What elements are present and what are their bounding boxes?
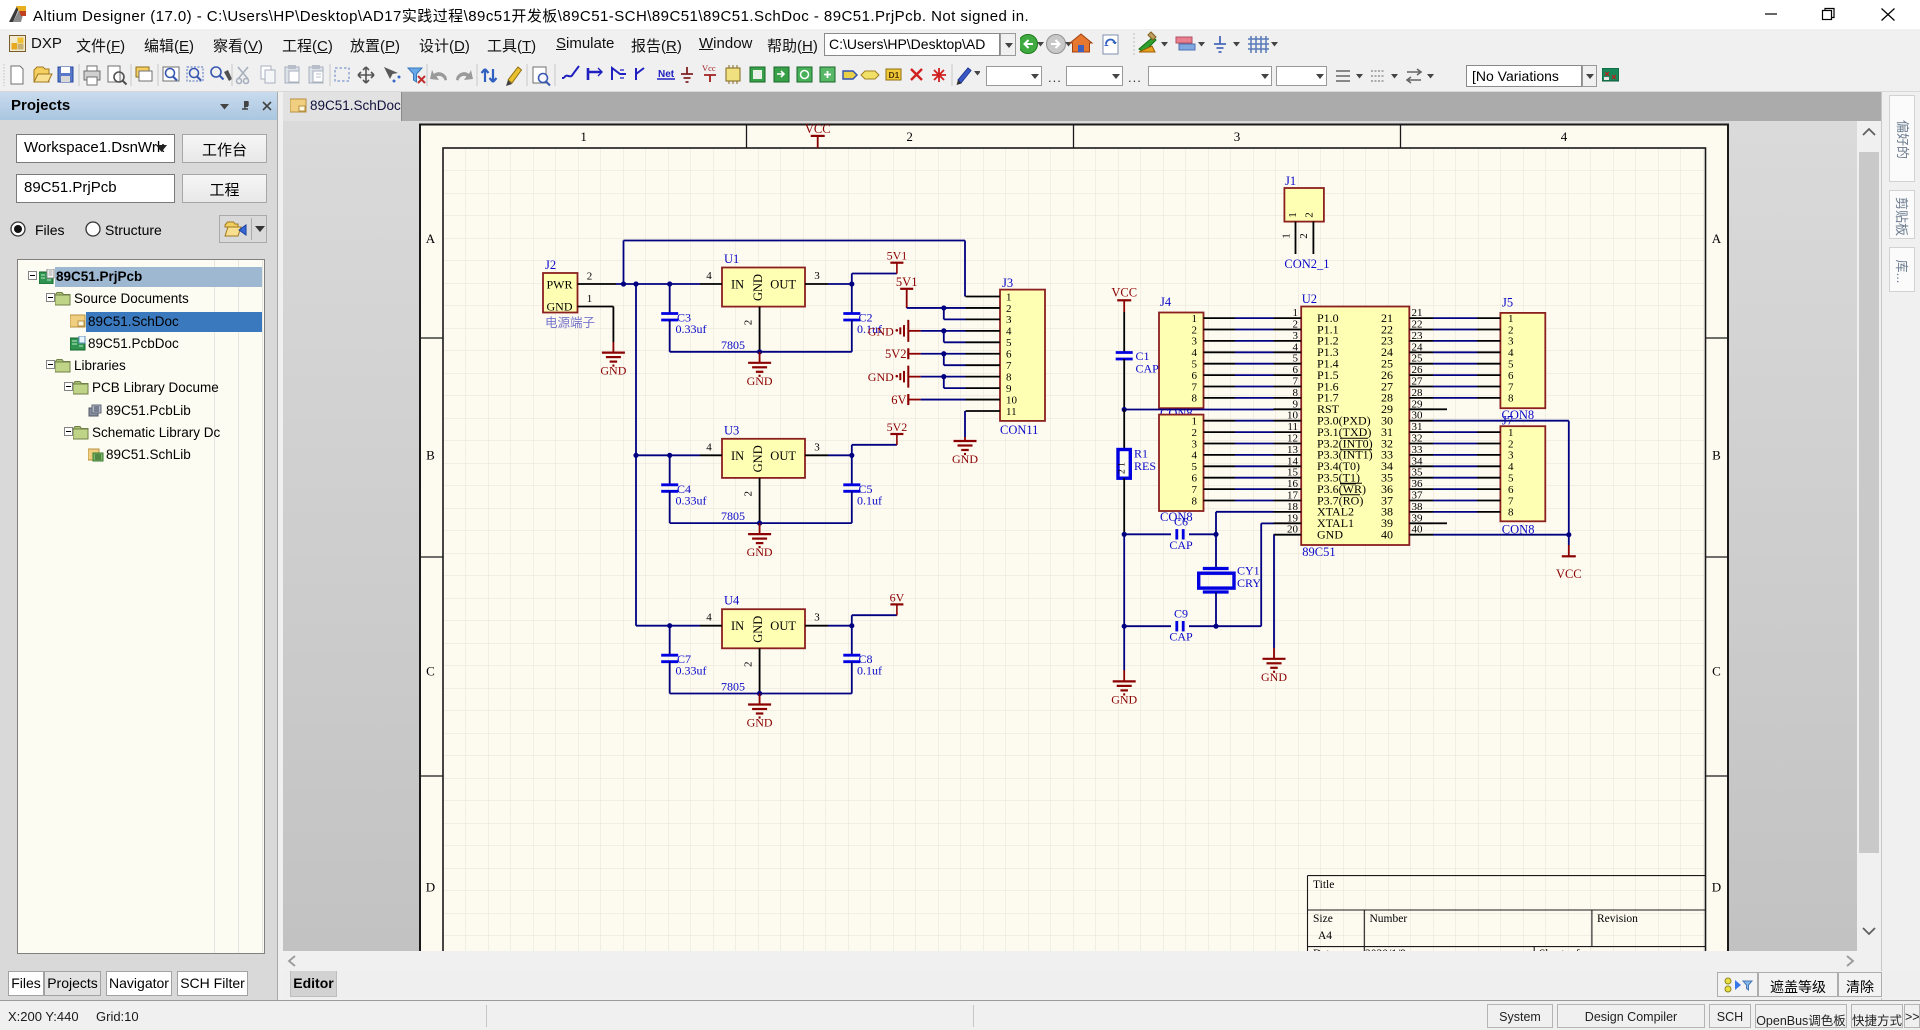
svg-text:6: 6 (1508, 484, 1514, 496)
svg-text:2: 2 (743, 491, 755, 497)
svg-text:U4: U4 (724, 594, 740, 608)
svg-text:GND: GND (751, 274, 765, 301)
svg-text:9: 9 (1006, 383, 1012, 395)
svg-text:1: 1 (1281, 233, 1293, 239)
svg-text:A: A (426, 231, 436, 246)
svg-text:A4: A4 (1318, 930, 1332, 942)
svg-text:C: C (1712, 664, 1721, 679)
svg-text:U3: U3 (724, 423, 739, 437)
svg-text:2: 2 (1006, 303, 1012, 315)
svg-text:89C51: 89C51 (1302, 545, 1335, 559)
svg-text:5: 5 (1508, 359, 1514, 371)
svg-text:IN: IN (731, 449, 744, 463)
svg-text:2: 2 (1192, 427, 1198, 439)
svg-text:11: 11 (1006, 406, 1017, 418)
svg-text:4: 4 (706, 441, 712, 453)
svg-text:B: B (1712, 448, 1721, 463)
svg-text:3: 3 (1508, 450, 1514, 462)
svg-text:VCC: VCC (1111, 286, 1137, 300)
svg-text:2: 2 (587, 271, 593, 283)
svg-text:GND: GND (868, 324, 894, 338)
svg-text:8: 8 (1508, 393, 1514, 405)
svg-text:5V2: 5V2 (887, 420, 908, 434)
svg-text:VCC: VCC (805, 122, 831, 136)
svg-text:GND: GND (747, 716, 773, 730)
svg-text:3: 3 (1234, 129, 1241, 144)
svg-text:U1: U1 (724, 252, 739, 266)
svg-text:7: 7 (1192, 381, 1198, 393)
svg-text:GND: GND (747, 545, 773, 559)
svg-text:CAP: CAP (1136, 362, 1160, 376)
svg-text:J4: J4 (1160, 295, 1172, 309)
svg-text:Vcc: Vcc (702, 63, 716, 73)
svg-text:5V1: 5V1 (887, 249, 908, 263)
svg-text:8: 8 (1508, 507, 1514, 519)
svg-text:GND: GND (747, 374, 773, 388)
svg-text:J5: J5 (1502, 296, 1513, 310)
svg-text:6: 6 (1192, 370, 1198, 382)
svg-text:GND: GND (547, 300, 573, 314)
svg-text:2: 2 (1508, 438, 1514, 450)
svg-text:GND: GND (1317, 528, 1343, 542)
svg-text:4: 4 (1192, 347, 1198, 359)
svg-text:6: 6 (1192, 473, 1198, 485)
svg-text:7: 7 (1508, 495, 1514, 507)
svg-text:4: 4 (706, 612, 712, 624)
svg-text:Date:: Date: (1313, 948, 1338, 951)
svg-text:1: 1 (587, 293, 593, 305)
svg-text:OUT: OUT (770, 449, 796, 463)
svg-text:GND: GND (1261, 670, 1287, 684)
svg-text:4: 4 (1006, 326, 1012, 338)
svg-text:Number: Number (1370, 913, 1408, 925)
svg-text:VCC: VCC (1556, 567, 1582, 581)
svg-text:6: 6 (1006, 349, 1012, 361)
svg-text:0.1uf: 0.1uf (857, 493, 882, 507)
svg-text:J2: J2 (545, 258, 556, 272)
svg-text:A: A (1712, 231, 1722, 246)
svg-text:GND: GND (952, 452, 978, 466)
svg-text:4: 4 (1508, 461, 1514, 473)
svg-text:C9: C9 (1174, 607, 1188, 621)
svg-text:4: 4 (1192, 450, 1198, 462)
svg-text:IN: IN (731, 278, 744, 292)
svg-text:OUT: OUT (770, 619, 796, 633)
svg-text:5V1: 5V1 (896, 275, 918, 289)
svg-text:5: 5 (1006, 337, 1012, 349)
svg-text:0.1uf: 0.1uf (857, 664, 882, 678)
svg-text:7805: 7805 (721, 338, 745, 352)
svg-text:CON2_1: CON2_1 (1284, 257, 1329, 271)
svg-text:1: 1 (1192, 416, 1198, 428)
svg-text:of: of (1570, 948, 1580, 951)
svg-text:3: 3 (814, 270, 820, 282)
svg-text:2: 2 (743, 661, 755, 667)
svg-text:CON11: CON11 (1000, 423, 1038, 437)
svg-text:6V: 6V (890, 590, 905, 604)
svg-text:Sheet: Sheet (1539, 948, 1565, 951)
svg-text:0.33uf: 0.33uf (676, 493, 707, 507)
svg-text:Size: Size (1313, 913, 1333, 925)
svg-text:7805: 7805 (721, 680, 745, 694)
svg-text:B: B (426, 448, 435, 463)
svg-text:5: 5 (1192, 461, 1198, 473)
svg-text:10: 10 (1006, 394, 1018, 406)
svg-text:Revision: Revision (1597, 913, 1638, 925)
svg-text:CAP: CAP (1169, 538, 1193, 552)
svg-text:OUT: OUT (770, 278, 796, 292)
svg-text:D1: D1 (889, 70, 900, 80)
svg-text:4: 4 (1508, 347, 1514, 359)
svg-text:2020/1/9: 2020/1/9 (1365, 948, 1406, 951)
svg-text:8: 8 (1006, 371, 1012, 383)
svg-text:3: 3 (814, 612, 820, 624)
svg-text:2: 2 (1508, 324, 1514, 336)
svg-text:GND: GND (600, 364, 626, 378)
svg-text:1: 1 (1006, 291, 1012, 303)
svg-text:J3: J3 (1002, 276, 1013, 290)
svg-text:7: 7 (1006, 360, 1012, 372)
svg-text:3: 3 (1508, 336, 1514, 348)
svg-text:0.33uf: 0.33uf (676, 664, 707, 678)
svg-text:CRY: CRY (1237, 576, 1261, 590)
svg-text:电源端子: 电源端子 (545, 316, 595, 330)
svg-text:CAP: CAP (1169, 630, 1193, 644)
svg-text:5V2: 5V2 (885, 347, 907, 361)
svg-text:3: 3 (1006, 314, 1012, 326)
svg-text:5: 5 (1192, 359, 1198, 371)
svg-text:7: 7 (1192, 484, 1198, 496)
svg-text:1: 1 (1508, 313, 1514, 325)
svg-text:1: 1 (1192, 313, 1198, 325)
svg-text:J1: J1 (1285, 174, 1296, 188)
svg-text:2: 2 (1192, 324, 1198, 336)
svg-text:8: 8 (1192, 495, 1198, 507)
svg-text:5: 5 (1508, 473, 1514, 485)
svg-text:0.33uf: 0.33uf (676, 322, 707, 336)
svg-text:2: 2 (1298, 233, 1310, 239)
svg-text:D: D (426, 880, 435, 895)
svg-text:1: 1 (1287, 212, 1299, 218)
svg-text:GND: GND (868, 370, 894, 384)
svg-text:2: 2 (906, 129, 913, 144)
svg-text:2: 2 (743, 320, 755, 326)
svg-text:7: 7 (1508, 381, 1514, 393)
svg-text:2 1: 2 1 (1118, 462, 1128, 474)
svg-text:GND: GND (751, 616, 765, 643)
svg-text:IN: IN (731, 619, 744, 633)
svg-text:1: 1 (580, 129, 587, 144)
svg-text:U2: U2 (1302, 292, 1317, 306)
svg-text:C6: C6 (1174, 515, 1188, 529)
svg-text:7805: 7805 (721, 509, 745, 523)
svg-text:PWR: PWR (547, 278, 573, 292)
svg-text:6: 6 (1508, 370, 1514, 382)
svg-text:1: 1 (1508, 427, 1514, 439)
svg-text:4: 4 (706, 270, 712, 282)
svg-text:3: 3 (1192, 336, 1198, 348)
svg-text:40: 40 (1381, 528, 1393, 542)
svg-text:GND: GND (1111, 692, 1137, 706)
svg-text:Title: Title (1313, 879, 1334, 891)
svg-text:C: C (426, 664, 435, 679)
svg-text:8: 8 (1192, 393, 1198, 405)
svg-text:RES: RES (1134, 459, 1156, 473)
svg-text:GND: GND (751, 445, 765, 472)
svg-text:3: 3 (1192, 438, 1198, 450)
svg-text:D: D (1712, 880, 1721, 895)
svg-text:3: 3 (814, 441, 820, 453)
svg-text:2: 2 (1304, 212, 1316, 218)
svg-text:4: 4 (1561, 129, 1568, 144)
svg-text:6V: 6V (891, 393, 906, 407)
